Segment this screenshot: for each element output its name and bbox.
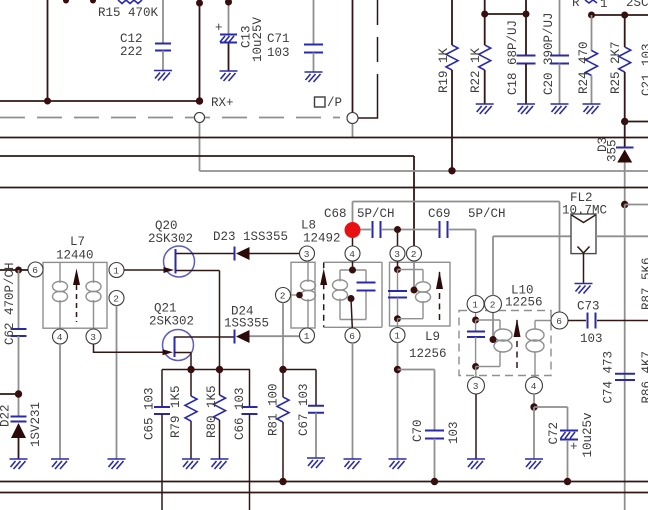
svg-text:C70: C70 bbox=[411, 419, 425, 442]
svg-text:C12: C12 bbox=[120, 32, 143, 46]
svg-text:C18 68P/UJ: C18 68P/UJ bbox=[506, 20, 520, 95]
svg-text:R25 2K7: R25 2K7 bbox=[609, 41, 623, 94]
svg-text:C73: C73 bbox=[577, 300, 600, 314]
svg-text:Q21: Q21 bbox=[154, 302, 177, 316]
svg-text:10.7MC: 10.7MC bbox=[562, 204, 607, 218]
svg-text:L7: L7 bbox=[70, 235, 85, 249]
svg-text:1: 1 bbox=[600, 0, 608, 11]
svg-text:C20 390P/UJ: C20 390P/UJ bbox=[542, 12, 556, 95]
svg-text:3: 3 bbox=[473, 381, 479, 392]
svg-text:5P/CH: 5P/CH bbox=[357, 207, 395, 221]
svg-text:5P/CH: 5P/CH bbox=[468, 207, 506, 221]
svg-text:10u25V: 10u25V bbox=[251, 16, 265, 62]
svg-text:1: 1 bbox=[304, 331, 310, 342]
svg-text:12256: 12256 bbox=[409, 347, 447, 361]
svg-text:3: 3 bbox=[90, 332, 96, 343]
svg-text:C71: C71 bbox=[267, 32, 290, 46]
svg-text:R: R bbox=[572, 0, 580, 10]
svg-text:R79 1K5: R79 1K5 bbox=[169, 385, 183, 438]
svg-text:6: 6 bbox=[556, 316, 562, 327]
svg-text:103: 103 bbox=[580, 332, 603, 346]
svg-text:R87 5K6: R87 5K6 bbox=[640, 257, 648, 310]
svg-text:R86 4K7: R86 4K7 bbox=[640, 351, 648, 404]
svg-text:1SV231: 1SV231 bbox=[29, 402, 43, 447]
svg-text:12256: 12256 bbox=[505, 296, 543, 310]
svg-text:103: 103 bbox=[267, 46, 290, 60]
svg-text:C74 473: C74 473 bbox=[602, 351, 616, 404]
svg-text:RX+: RX+ bbox=[211, 96, 234, 110]
svg-text:1: 1 bbox=[113, 266, 119, 277]
svg-text:C66 103: C66 103 bbox=[233, 387, 247, 440]
svg-text:2SK302: 2SK302 bbox=[148, 232, 193, 246]
svg-text:2SK302: 2SK302 bbox=[149, 315, 194, 329]
svg-text:3: 3 bbox=[304, 249, 310, 260]
svg-text:C69: C69 bbox=[428, 207, 451, 221]
svg-text:L8: L8 bbox=[301, 219, 316, 233]
svg-text:R24 470: R24 470 bbox=[577, 41, 591, 94]
svg-text:C62 470P/CH: C62 470P/CH bbox=[3, 262, 17, 345]
svg-text:3: 3 bbox=[394, 249, 400, 260]
svg-text:355: 355 bbox=[606, 139, 620, 162]
svg-text:2SC: 2SC bbox=[626, 0, 648, 10]
svg-text:2: 2 bbox=[490, 300, 496, 311]
svg-text:C65 103: C65 103 bbox=[143, 387, 157, 440]
svg-text:1: 1 bbox=[394, 331, 400, 342]
svg-text:C21 103: C21 103 bbox=[640, 43, 648, 96]
svg-text:/P: /P bbox=[327, 96, 342, 110]
svg-text:R81 100: R81 100 bbox=[267, 383, 281, 436]
svg-text:Q20: Q20 bbox=[155, 219, 178, 233]
svg-text:R22 1K: R22 1K bbox=[469, 47, 483, 93]
svg-text:R80 1K5: R80 1K5 bbox=[205, 385, 219, 438]
svg-text:4: 4 bbox=[57, 332, 63, 343]
svg-text:1: 1 bbox=[472, 300, 478, 311]
svg-text:C68: C68 bbox=[324, 207, 347, 221]
svg-text:12440: 12440 bbox=[56, 249, 94, 263]
svg-text:222: 222 bbox=[120, 45, 143, 59]
svg-text:C67 103: C67 103 bbox=[297, 383, 311, 436]
svg-text:1SS355: 1SS355 bbox=[224, 317, 269, 331]
svg-text:4: 4 bbox=[349, 249, 355, 260]
svg-text:10u25v: 10u25v bbox=[581, 412, 595, 458]
svg-text:6: 6 bbox=[32, 265, 38, 276]
svg-text:R15 470K: R15 470K bbox=[98, 6, 159, 20]
svg-text:D23 1SS355: D23 1SS355 bbox=[213, 230, 288, 244]
svg-text:R19 1K: R19 1K bbox=[437, 47, 451, 93]
svg-text:2: 2 bbox=[411, 249, 417, 260]
svg-text:L9: L9 bbox=[425, 330, 440, 344]
svg-text:D22: D22 bbox=[0, 404, 13, 427]
svg-text:+: + bbox=[570, 440, 578, 454]
svg-text:+: + bbox=[215, 21, 223, 35]
svg-text:2: 2 bbox=[113, 294, 119, 305]
svg-text:6: 6 bbox=[349, 331, 355, 342]
svg-text:12492: 12492 bbox=[303, 232, 341, 246]
svg-text:C72: C72 bbox=[547, 422, 561, 445]
svg-text:2: 2 bbox=[280, 291, 286, 302]
svg-text:103: 103 bbox=[447, 421, 461, 444]
svg-text:4: 4 bbox=[531, 381, 537, 392]
